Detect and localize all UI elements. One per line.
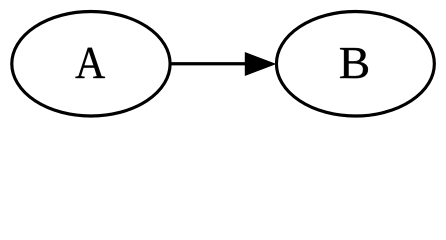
wire edge A to B (170, 62, 247, 65)
arrowhead of edge A to B (245, 52, 277, 76)
node B ellipse (276, 12, 434, 117)
node A label "A" (75, 48, 104, 78)
node A ellipse (12, 12, 170, 117)
node B label "B" (340, 48, 368, 78)
